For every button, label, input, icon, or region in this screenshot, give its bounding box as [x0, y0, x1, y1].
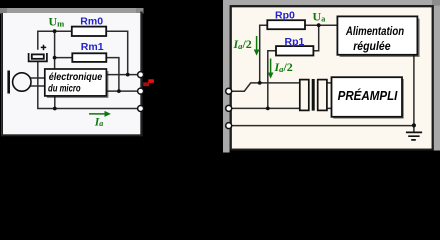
svg-text:Rm1: Rm1	[81, 41, 104, 53]
node upper rail dot	[258, 81, 262, 85]
node lower rail dot	[266, 107, 270, 111]
svg-text:Alimentation: Alimentation	[345, 25, 404, 38]
left panel gray title strip	[0, 8, 144, 13]
resistor Rm1	[72, 53, 106, 62]
resistor Rp1	[276, 46, 313, 55]
svg-text:du micro: du micro	[48, 83, 81, 94]
red cursor mark	[143, 82, 149, 86]
capacitor C bracket	[29, 53, 47, 61]
terminal B	[226, 105, 232, 111]
terminal A	[226, 88, 232, 94]
current arrow Ia	[89, 113, 106, 115]
svg-text:PRÉAMPLI: PRÉAMPLI	[338, 88, 398, 103]
wire Rp1 left down to lower rail	[268, 51, 276, 109]
wire top: cap branch up to Um node to Rm0	[38, 31, 72, 50]
svg-text:Ia/2: Ia/2	[274, 60, 293, 74]
svg-text:Rp1: Rp1	[285, 36, 305, 48]
node Ua dot	[317, 23, 321, 27]
terminal 2	[138, 88, 144, 94]
svg-text:Ia/2: Ia/2	[233, 37, 252, 51]
microphone membrane bar	[7, 71, 10, 94]
wire mic upper	[30, 77, 45, 79]
svg-text:Rp0: Rp0	[275, 10, 295, 22]
svg-text:Rm0: Rm0	[80, 15, 103, 27]
wire lower rail	[231, 107, 300, 109]
node middle output dot	[117, 89, 121, 93]
box PREAMPLI	[333, 79, 404, 119]
right panel body	[432, 0, 440, 6]
wire box bottom pin down	[54, 96, 56, 109]
wire Rp0 left vertical	[260, 25, 268, 83]
terminal 3	[138, 106, 144, 112]
wire Rm1 right down to middle output	[106, 58, 119, 92]
current arrow Ia/2 first	[256, 36, 258, 51]
transformer secondary winding	[318, 80, 327, 111]
wire Um node down to Rm1 node and box top	[54, 31, 56, 69]
wire upper output	[107, 74, 140, 76]
wire Rm1 left	[55, 57, 73, 59]
transformer core	[312, 79, 315, 111]
right panel gray surround	[223, 0, 440, 153]
ground symbol	[406, 132, 422, 140]
node Rm1-left dot	[53, 56, 57, 60]
current arrow Ia/2 second	[270, 59, 272, 74]
wire middle output	[107, 90, 140, 92]
node Um dot	[53, 29, 57, 33]
resistor Rm0	[72, 27, 106, 36]
left panel body	[1, 13, 142, 135]
wire bottom rail	[231, 125, 414, 127]
wire upper rail with jog from terminal 1	[231, 83, 300, 91]
svg-text:électronique: électronique	[49, 72, 103, 83]
node bottom rail dot	[53, 107, 57, 111]
resistor Rp0	[267, 20, 305, 29]
terminal 1	[138, 72, 144, 78]
wire mic lower	[30, 85, 45, 87]
node ground dot	[412, 123, 416, 127]
microphone M	[13, 73, 31, 91]
wire Rp0 right to Ua to Alim box	[305, 24, 338, 26]
node upper output dot	[126, 73, 130, 77]
wire Rm0 right to upper output	[106, 31, 128, 74]
terminal C	[226, 123, 232, 129]
wire transformer secondary stubs	[327, 83, 332, 109]
wire cap bottom down to bottom rail and to terminal 3	[38, 61, 140, 108]
box electronique du micro	[47, 71, 109, 98]
capacitor + sign	[41, 45, 46, 50]
svg-text:régulée: régulée	[353, 40, 391, 53]
box Alimentation regulee	[340, 19, 420, 57]
transformer primary winding	[300, 80, 309, 111]
wire ground vertical	[413, 55, 415, 132]
wire Ua node down to Rp1 right	[313, 25, 318, 51]
capacitor C (polarized) plate	[32, 54, 44, 58]
